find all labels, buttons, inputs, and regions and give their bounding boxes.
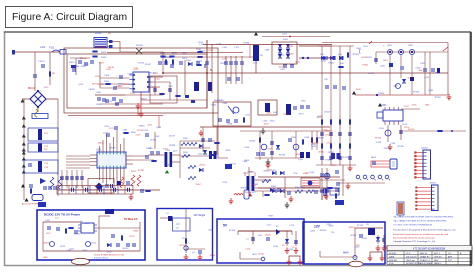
svg-text:CX101: CX101 — [38, 61, 45, 63]
svg-text:GND: GND — [43, 257, 48, 259]
svg-text:RT338: RT338 — [243, 43, 250, 45]
svg-text:ZD128: ZD128 — [384, 148, 391, 150]
svg-text:RT135: RT135 — [124, 84, 131, 86]
svg-text:LF101: LF101 — [95, 33, 102, 35]
svg-text:CN302: CN302 — [429, 183, 437, 185]
svg-text:GND: GND — [425, 105, 430, 107]
svg-text:SNUBBER: SNUBBER — [214, 100, 224, 102]
svg-text:CE363: CE363 — [138, 126, 145, 128]
svg-text:Q141: Q141 — [424, 77, 430, 79]
svg-text:R120: R120 — [160, 53, 166, 55]
svg-text:+12V: +12V — [303, 173, 309, 175]
svg-text:DATE: DATE — [389, 255, 395, 258]
svg-text:RT281: RT281 — [150, 72, 157, 74]
svg-text:UNIT mm: UNIT mm — [406, 260, 415, 262]
svg-text:T301: T301 — [363, 46, 369, 48]
svg-text:5V Max 2A: 5V Max 2A — [124, 217, 138, 221]
svg-text:ZD328: ZD328 — [169, 145, 176, 147]
svg-text:RT301: RT301 — [325, 160, 332, 162]
svg-text:ZD210: ZD210 — [245, 192, 252, 194]
svg-text:U101: U101 — [133, 69, 139, 71]
svg-text:APP: APP — [448, 255, 453, 258]
svg-text:CE291: CE291 — [43, 242, 50, 244]
svg-text:ZD166: ZD166 — [81, 58, 88, 60]
svg-text:ZD157: ZD157 — [326, 130, 333, 132]
svg-text:CE349: CE349 — [109, 148, 116, 150]
svg-text:PCB-201 VER1.0: PCB-201 VER1.0 — [94, 258, 108, 260]
svg-text:L201: L201 — [282, 34, 288, 36]
svg-text:C10: C10 — [331, 232, 334, 234]
svg-text:and protected party interests: and protected party interests are entitl… — [393, 233, 448, 236]
svg-text:* ALL RESISTORS ARE IN OHMS 1/: * ALL RESISTORS ARE IN OHMS 1/4W 5% UNLE… — [393, 216, 454, 219]
svg-text:BD101: BD101 — [28, 88, 36, 90]
svg-text:CE358: CE358 — [240, 188, 247, 190]
svg-text:R101: R101 — [69, 62, 75, 64]
svg-text:FILE: FILE — [389, 263, 394, 265]
svg-text:R102: R102 — [101, 52, 107, 54]
svg-text:* ALL CAPACITORS ARE IN UF 50V: * ALL CAPACITORS ARE IN UF 50V UNLESS SP… — [393, 220, 447, 223]
svg-text:CE161: CE161 — [368, 73, 375, 75]
svg-text:RT321: RT321 — [362, 65, 369, 67]
svg-text:SCALE 1:1: SCALE 1:1 — [420, 259, 431, 262]
svg-text:CE201: CE201 — [74, 234, 81, 236]
svg-text:R106: R106 — [104, 81, 110, 83]
svg-text:ZD298: ZD298 — [328, 152, 335, 154]
svg-text:REV 01: REV 01 — [420, 253, 428, 255]
svg-text:RT245: RT245 — [98, 84, 105, 86]
svg-text:RT154: RT154 — [284, 114, 291, 116]
svg-text:2013.05.18: 2013.05.18 — [406, 256, 417, 258]
svg-text:C104: C104 — [104, 75, 110, 77]
svg-text:R316 R317: R316 R317 — [295, 187, 306, 189]
svg-text:PC101: PC101 — [138, 170, 145, 172]
svg-text:CE141: CE141 — [90, 243, 97, 245]
svg-text:12V Single: 12V Single — [194, 214, 206, 217]
svg-text:JACK: JACK — [371, 156, 377, 159]
svg-text:RT242: RT242 — [375, 137, 382, 139]
svg-text:disclosed partly without the w: disclosed partly without the written per… — [393, 237, 436, 240]
svg-text:ZD170: ZD170 — [137, 130, 144, 132]
svg-text:ZD146: ZD146 — [279, 66, 286, 68]
svg-text:5Vsb: 5Vsb — [356, 89, 362, 91]
svg-text:ZD219: ZD219 — [169, 135, 176, 137]
svg-text:C8: C8 — [282, 245, 284, 247]
svg-text:D101: D101 — [186, 60, 192, 62]
svg-text:CN301: CN301 — [421, 148, 429, 150]
svg-text:12V: 12V — [314, 225, 321, 229]
svg-text:Q222: Q222 — [295, 62, 301, 64]
svg-text:ZD224: ZD224 — [199, 164, 206, 166]
svg-text:CHK BY: CHK BY — [434, 256, 442, 258]
svg-text:RT139: RT139 — [325, 135, 332, 137]
svg-text:Copyright Shenzhen KTC Technol: Copyright Shenzhen KTC Technology Co., L… — [393, 240, 435, 243]
svg-text:ZD201: ZD201 — [350, 235, 357, 237]
svg-text:LED1: LED1 — [252, 254, 257, 256]
svg-text:ZD307: ZD307 — [366, 57, 373, 59]
svg-text:This document is the property: This document is the property of Shenzhe… — [393, 229, 455, 232]
svg-text:ZD396: ZD396 — [320, 230, 327, 232]
svg-text:C121: C121 — [234, 47, 240, 49]
svg-text:Q219: Q219 — [84, 64, 90, 66]
svg-text:SIZE A3: SIZE A3 — [389, 259, 397, 262]
svg-text:ZD166: ZD166 — [98, 142, 105, 144]
svg-text:ZD214: ZD214 — [408, 129, 415, 131]
svg-text:CE337: CE337 — [220, 63, 227, 65]
svg-text:CE303: CE303 — [140, 99, 147, 101]
svg-text:SHT 1: SHT 1 — [434, 253, 441, 255]
svg-text:RT118: RT118 — [357, 225, 364, 227]
svg-text:RT329: RT329 — [378, 93, 385, 95]
svg-text:RT352: RT352 — [313, 143, 320, 145]
svg-text:DC/DC 12V TO 5V Power: DC/DC 12V TO 5V Power — [44, 212, 81, 216]
svg-text:RT369: RT369 — [398, 146, 405, 148]
svg-text:NTC: NTC — [44, 87, 49, 89]
svg-text:Figure A: Circuit Diagram: Figure A: Circuit Diagram — [12, 12, 127, 23]
svg-text:RT307: RT307 — [318, 138, 325, 140]
svg-text:U201: U201 — [96, 150, 102, 152]
svg-text:ZD229: ZD229 — [324, 112, 331, 114]
svg-text:CE260: CE260 — [89, 89, 96, 91]
svg-text:ZD102: ZD102 — [145, 64, 152, 66]
svg-text:ZD277: ZD277 — [199, 50, 206, 52]
svg-text:KTC SK26MT-SC/48X9/B2E2M: KTC SK26MT-SC/48X9/B2E2M — [413, 248, 445, 250]
svg-text:RT338: RT338 — [279, 155, 286, 157]
svg-text:C120: C120 — [222, 47, 228, 49]
svg-text:R121: R121 — [172, 53, 178, 55]
svg-text:DC/DC POWER MODULE 5V 2A: DC/DC POWER MODULE 5V 2A — [94, 254, 124, 257]
svg-text:ZD152: ZD152 — [342, 157, 349, 159]
svg-text:RT350: RT350 — [413, 91, 420, 93]
svg-text:PAGE 1: PAGE 1 — [434, 262, 442, 265]
svg-text:RT291: RT291 — [343, 252, 350, 254]
svg-text:12V: 12V — [55, 218, 59, 220]
svg-text:KTC: KTC — [448, 260, 453, 262]
svg-text:MODEL: MODEL — [389, 253, 397, 255]
svg-text:CE144: CE144 — [122, 248, 129, 250]
svg-text:REV: REV — [434, 260, 439, 262]
svg-text:ZD174: ZD174 — [230, 164, 237, 166]
svg-text:R103: R103 — [101, 57, 107, 59]
svg-text:ZD101: ZD101 — [258, 254, 265, 256]
svg-text:Q227: Q227 — [173, 151, 179, 153]
svg-text:CE353: CE353 — [249, 140, 256, 142]
svg-text:Q367: Q367 — [266, 112, 272, 114]
svg-text:D201: D201 — [283, 39, 289, 41]
svg-text:* DO NOT COPY WITHOUT PERMISSI: * DO NOT COPY WITHOUT PERMISSION — [393, 225, 433, 227]
svg-text:RT141: RT141 — [106, 101, 113, 103]
svg-text:RT282: RT282 — [287, 46, 294, 48]
svg-text:CE161: CE161 — [318, 152, 325, 154]
svg-text:RT198: RT198 — [229, 230, 236, 232]
svg-text:DRAW BY: DRAW BY — [420, 255, 430, 258]
svg-text:F101: F101 — [49, 47, 55, 50]
svg-text:RT318: RT318 — [435, 97, 442, 99]
svg-text:RT297: RT297 — [180, 245, 187, 247]
svg-text:U301: U301 — [381, 105, 387, 107]
svg-text:Q168: Q168 — [362, 238, 368, 240]
svg-text:RT232: RT232 — [328, 63, 335, 65]
svg-text:ZD307: ZD307 — [150, 139, 157, 141]
svg-text:RT381: RT381 — [353, 54, 360, 56]
svg-text:CE226: CE226 — [265, 234, 272, 236]
svg-text:CE153: CE153 — [349, 227, 356, 229]
svg-text:SW101: SW101 — [136, 45, 144, 47]
svg-text:SK26MT-SC MAIN POWER: SK26MT-SC MAIN POWER — [406, 262, 432, 265]
svg-text:L102: L102 — [40, 46, 46, 49]
